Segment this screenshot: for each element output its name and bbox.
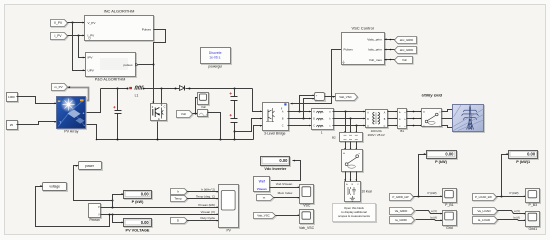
Utility Grid source block with transmission tower image	[453, 105, 485, 133]
svg-text:P (kW): P (kW)	[427, 191, 436, 195]
wire I_PV branch down to P&O iPV	[79, 36, 86, 59]
svg-text:Va_LOAD: Va_LOAD	[477, 209, 491, 213]
svg-text:L1: L1	[135, 94, 139, 98]
svg-text:Vdc Inverter: Vdc Inverter	[264, 167, 286, 171]
scope P_B3	[526, 189, 541, 208]
wire P_LOAD to P_B3 scope	[497, 191, 526, 197]
signal label Vmean V	[201, 210, 215, 214]
svg-text:V_PV: V_PV	[54, 21, 63, 25]
svg-text:Vref: Vref	[259, 180, 266, 184]
scope P_B1	[443, 189, 458, 208]
wire Ia_GRID to Grid scope	[416, 216, 443, 222]
DC bottom rail wire	[96, 125, 263, 141]
three-phase breaker Utility Grid	[421, 93, 442, 128]
svg-text:a (V): a (V)	[431, 209, 437, 213]
svg-text:Pmean: Pmean	[90, 218, 100, 222]
goto tag Vab_VSC	[336, 94, 359, 102]
svg-text:a (V): a (V)	[514, 209, 520, 213]
input capacitor C1 branch	[113, 89, 121, 140]
constant block 1000 irradiance	[7, 93, 19, 103]
svg-text:powergui: powergui	[208, 64, 222, 68]
svg-text:0.00: 0.00	[527, 152, 536, 157]
from tags Vref Vmean block	[254, 177, 271, 193]
wire Pmean P output long to PV scope	[101, 206, 219, 208]
DC top rail wire	[101, 88, 263, 113]
wire Temp to scope	[187, 194, 219, 199]
svg-text:Ia (A): Ia (A)	[430, 216, 437, 220]
display Vdc Inverter	[261, 157, 291, 172]
wire Vdc to VSC	[384, 59, 394, 61]
svg-text:1e-06 s.: 1e-06 s.	[209, 56, 221, 60]
wire Ir to scope	[187, 187, 219, 192]
svg-text:B2: B2	[332, 135, 336, 139]
wire V_PV branch down to P&O uPV	[73, 23, 86, 72]
wire P_GRID to P_B1 scope	[414, 191, 443, 197]
svg-text:Mod. Index: Mod. Index	[278, 191, 293, 195]
svg-text:Grid1: Grid1	[529, 227, 538, 231]
scope VSC	[300, 185, 315, 208]
wire bus taps down to B2	[344, 112, 357, 133]
wire m to VSC scope	[274, 191, 300, 199]
svg-text:Vab_VSC: Vab_VSC	[339, 95, 351, 99]
svg-text:VSC Control: VSC Control	[351, 26, 373, 31]
wire V to PV VOLTAGE display	[113, 215, 124, 224]
wires breaker to 10 kvar load	[344, 172, 357, 182]
wire Vdc tag to voltage filter	[193, 97, 198, 115]
from tag P_LOAD_kW	[473, 194, 498, 202]
subsystem VSC Control	[342, 26, 386, 66]
scope Vab_VSC	[299, 210, 315, 231]
display P kW grid	[427, 151, 458, 164]
svg-text:P_GRID_kW: P_GRID_kW	[392, 195, 408, 199]
svg-text:INC ALGORITHM: INC ALGORITHM	[104, 9, 135, 14]
wires breaker to utility grid block	[442, 110, 453, 128]
svg-text:pulses: pulses	[124, 63, 133, 67]
wire P&O pulses join	[135, 64, 153, 66]
wire P_GRID up to display	[419, 153, 427, 196]
svg-text:10 kvar: 10 kvar	[362, 189, 373, 193]
svg-text:3-Level Bridge: 3-Level Bridge	[264, 131, 285, 135]
constant block 25 temperature	[7, 121, 19, 131]
wire DC link midpoint to bridge N	[235, 118, 263, 132]
svg-text:V_PV: V_PV	[88, 21, 97, 25]
three-phase wires B1 to grid breaker	[407, 111, 422, 127]
svg-text:Ia (A): Ia (A)	[513, 216, 520, 220]
svg-text:1000: 1000	[8, 95, 15, 99]
svg-text:L: L	[321, 130, 323, 134]
signal label Pmean kW	[198, 203, 215, 207]
PV Array block	[57, 97, 87, 134]
display P kW1 load	[509, 151, 539, 164]
wire PV minus to DC bottom rail	[87, 125, 97, 140]
svg-text:0.00: 0.00	[141, 220, 150, 225]
three-phase inductor block L	[312, 109, 335, 135]
wire Vmean to voltage tag	[36, 185, 110, 226]
svg-text:Vdc: Vdc	[201, 105, 207, 109]
from tag P_GRID_kW	[390, 194, 415, 202]
svg-text:Discrete: Discrete	[209, 51, 222, 55]
wire measurement to Vab_VSC goto	[325, 96, 336, 98]
svg-text:Grid: Grid	[446, 226, 453, 230]
from tag Vab_VSC monitor	[254, 213, 277, 220]
display P kW pv	[124, 191, 153, 205]
wire Pmean to power tag	[74, 165, 114, 202]
wire Pmean V output long to PV scope	[101, 213, 219, 215]
from tag Ir	[171, 189, 189, 196]
from tag m modulation	[257, 195, 275, 202]
svg-text:Pulses: Pulses	[344, 48, 354, 52]
wire V_PV to INC input	[68, 22, 85, 24]
svg-text:+: +	[82, 111, 84, 115]
three-phase wires L to transformer	[333, 111, 366, 127]
svg-text:0.00: 0.00	[445, 152, 454, 157]
wire filter output down to bottom rail	[208, 113, 221, 140]
svg-text:I_PV: I_PV	[54, 34, 62, 38]
svg-text:Vmean: Vmean	[257, 187, 267, 191]
svg-text:Vref./Vmean: Vref./Vmean	[276, 182, 293, 186]
goto tag m_PV	[52, 84, 69, 92]
svg-text:C: C	[282, 125, 284, 128]
svg-text:Ir: Ir	[177, 190, 179, 194]
wire PV m output to m_PV tag (thick measurement bus)	[68, 86, 89, 100]
diode D1 on top rail	[179, 86, 184, 91]
svg-text:P&O ALGORITHM: P&O ALGORITHM	[95, 78, 126, 82]
three-phase breaker load	[342, 150, 364, 173]
svg-text:abc_GRID: abc_GRID	[400, 38, 414, 42]
wire Vref to Vdc Inverter display	[270, 160, 301, 181]
wire Vabc_GRID to VSC	[384, 38, 394, 40]
goto tag power	[79, 162, 103, 171]
wire P_LOAD up to display	[502, 153, 509, 196]
from tag Vdc (boost output measure)	[177, 111, 194, 119]
svg-text:Utility Grid: Utility Grid	[421, 93, 442, 98]
svg-text:PV Array: PV Array	[64, 129, 78, 133]
svg-text:B1: B1	[400, 129, 404, 133]
from tag Vdc to VSC	[395, 57, 414, 65]
svg-text:abc_GRID: abc_GRID	[400, 48, 414, 52]
svg-text:Pmean (kW): Pmean (kW)	[198, 203, 215, 207]
from tag Va_GRID	[390, 208, 416, 216]
subsystem INC ALGORITHM	[85, 9, 155, 42]
svg-text:Ia_LOAD: Ia_LOAD	[478, 218, 491, 222]
svg-text:Vabc_prim: Vabc_prim	[367, 37, 382, 41]
svg-text:Ia_GRID: Ia_GRID	[395, 218, 408, 222]
svg-text:-: -	[316, 98, 317, 102]
powergui block Discrete 1e-06 s	[201, 48, 232, 69]
goto tag voltage	[43, 183, 68, 192]
wire 1000 to PV Ir	[17, 97, 57, 105]
svg-text:C: C	[164, 106, 166, 109]
scope Grid	[443, 211, 458, 231]
svg-text:0.00: 0.00	[141, 191, 150, 196]
from tag Ia_GRID	[390, 217, 416, 225]
three-phase measurement block B1	[398, 109, 408, 134]
svg-text:Ir (W/m^2): Ir (W/m^2)	[201, 187, 215, 191]
svg-text:P_LOAD_kW: P_LOAD_kW	[475, 195, 492, 199]
scope PV	[219, 185, 240, 233]
annotation open this block note	[333, 204, 377, 223]
from tag Iabc_GRID	[395, 47, 418, 55]
wire I_PV to INC input	[68, 34, 85, 36]
svg-text:Vdc_mes: Vdc_mes	[369, 58, 382, 62]
svg-text:P_B3: P_B3	[529, 203, 538, 207]
svg-text:P_B1: P_B1	[445, 203, 454, 207]
svg-text:P (kW): P (kW)	[509, 191, 518, 195]
wire 25 to PV T	[17, 121, 57, 125]
svg-text:power: power	[85, 164, 95, 168]
svg-text:Vmean (V): Vmean (V)	[201, 210, 215, 214]
subsystem P&O ALGORITHM	[86, 53, 137, 82]
subsystem Pmean	[89, 204, 102, 223]
IGBT boost switch Q1	[151, 89, 168, 122]
svg-text:P (kW)1: P (kW)1	[516, 160, 530, 164]
from tag Va_LOAD	[473, 208, 499, 216]
svg-text:0.00: 0.00	[279, 158, 288, 163]
from tag I_PV	[51, 33, 69, 41]
svg-text:Temp: Temp	[174, 197, 182, 201]
svg-text:voltage: voltage	[49, 184, 60, 188]
svg-text:I_PV: I_PV	[87, 34, 95, 38]
wire Va_LOAD to Grid1 scope	[498, 209, 526, 214]
scope Grid1	[526, 212, 541, 231]
display PV VOLTAGE	[124, 219, 153, 233]
svg-text:25: 25	[10, 123, 14, 127]
wire IGBT emitter to bottom rail	[157, 122, 159, 140]
transformer block 100 kVA	[366, 110, 389, 137]
wire PV plus to DC top rail	[87, 89, 101, 113]
svg-text:T: T	[59, 120, 61, 124]
from tag Vabc_GRID	[395, 37, 418, 45]
wire D to scope	[187, 216, 219, 221]
svg-text:Vab_VSC: Vab_VSC	[257, 214, 269, 218]
wire INC Pulses to boost gate	[152, 30, 165, 104]
svg-text:Va_GRID: Va_GRID	[395, 209, 408, 213]
wire Vref Vmean to VSC scope	[270, 182, 300, 188]
from tag Temp	[171, 196, 189, 203]
svg-text:P (kW): P (kW)	[132, 200, 144, 204]
svg-text:Vdc: Vdc	[402, 58, 408, 62]
svg-text:PV VOLTAGE: PV VOLTAGE	[126, 228, 150, 232]
svg-text:Vdc: Vdc	[181, 112, 187, 116]
DC link split capacitors C2 C3	[230, 89, 238, 140]
scope Vdc	[198, 93, 210, 110]
svg-text:scopes & measurements: scopes & measurements	[338, 214, 370, 218]
wire P to P kW display	[113, 193, 124, 207]
from tag Ia_LOAD	[473, 217, 499, 225]
three-phase wires transformer to B1	[388, 111, 398, 127]
subsystem Vdc mean filter	[198, 110, 209, 118]
svg-text:260V / 25 kV: 260V / 25 kV	[368, 133, 385, 137]
load block 10 kvar	[345, 182, 373, 203]
wire VSC pulses to bridge g	[290, 50, 341, 105]
voltage measurement block Vab VSC	[315, 93, 326, 102]
three-phase wires bridge to L	[288, 111, 312, 127]
wires B2 to load breaker	[344, 142, 357, 150]
from tag D duty cycle	[171, 218, 189, 225]
svg-text:Duty Cycle: Duty Cycle	[200, 216, 215, 220]
svg-text:Vab_VSC: Vab_VSC	[299, 226, 315, 230]
svg-text:UPV: UPV	[88, 69, 95, 73]
from tag V_PV	[51, 20, 69, 28]
wire Ia_LOAD to Grid1 scope	[498, 216, 526, 222]
three-phase measurement block B2	[332, 133, 364, 143]
inductor L1 series branch	[129, 86, 144, 98]
svg-text:Iabc_prim: Iabc_prim	[368, 48, 382, 52]
wire Vab_VSC to scope	[276, 214, 300, 216]
svg-text:P (kW): P (kW)	[435, 160, 447, 164]
svg-text:m_PV: m_PV	[54, 85, 62, 89]
wire Iabc_GRID to VSC	[384, 49, 394, 51]
svg-text:Pulses: Pulses	[142, 27, 152, 31]
3-Level Bridge block	[263, 103, 290, 136]
wire taps to Vab measurement	[300, 94, 315, 118]
wire Va_GRID to Grid scope	[416, 209, 443, 214]
svg-text:VSC: VSC	[303, 203, 311, 207]
svg-text:Temp (deg. C): Temp (deg. C)	[196, 194, 215, 198]
